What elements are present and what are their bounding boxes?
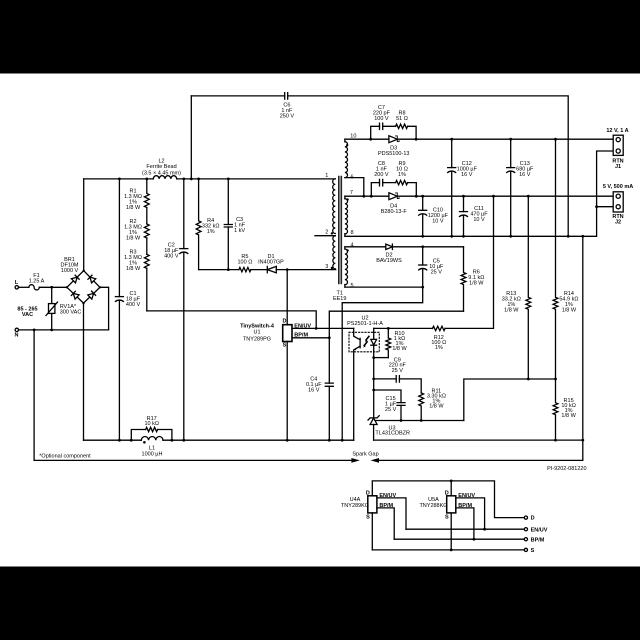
svg-text:EE19: EE19 <box>333 296 346 302</box>
inductor L2 ferrite bead <box>153 176 176 179</box>
bottom black band <box>0 567 640 640</box>
svg-text:10 V: 10 V <box>432 219 444 225</box>
capacitor C5 <box>419 247 427 287</box>
svg-text:5 V, 500 mA: 5 V, 500 mA <box>603 184 633 190</box>
node: phase dot pin 2 <box>331 232 333 234</box>
resistor R9 <box>396 180 408 184</box>
snubber loop C7/R8 around D3 <box>371 126 416 139</box>
transformer core bars <box>339 177 342 284</box>
wire: U5A EN/UV jog <box>456 498 485 529</box>
capacitor C12 <box>448 139 456 236</box>
wire: bridge top vertex to HV bus corner <box>83 179 85 271</box>
node: drain junction on pin3 row <box>286 268 289 271</box>
svg-text:1 kV: 1 kV <box>234 228 245 234</box>
node: 5V row junctions <box>362 195 529 198</box>
wire: U4A EN/UV jog <box>377 498 406 529</box>
node: U5A S junction <box>450 549 453 552</box>
wire: opto LED / R10 / R12 row <box>374 196 494 328</box>
wire: line-sense feed (R3 bottom to EN/UV) <box>147 311 316 329</box>
node: ground row junctions <box>421 235 584 238</box>
node: U5A EN/UV junction <box>483 528 486 531</box>
terminal S <box>524 548 527 551</box>
svg-text:1000 µH: 1000 µH <box>142 451 163 457</box>
node: N / RV1A junction <box>50 329 53 332</box>
resistor R10 <box>386 328 391 357</box>
node: C9 row junction <box>372 378 375 381</box>
wire: EN/UV output line <box>406 528 524 530</box>
resistor R14 column <box>553 139 558 379</box>
IC U4A TNY289KG body <box>368 496 377 513</box>
terminal D <box>524 516 527 519</box>
node: phase dot pin 10 <box>346 144 348 146</box>
wire: pin 6 elbow down to 5V row <box>345 178 364 197</box>
wire: pin 2 stub <box>315 235 335 237</box>
svg-text:1.25 A: 1.25 A <box>29 279 45 285</box>
svg-text:1: 1 <box>325 173 328 179</box>
svg-text:(3.5 × 4.45 mm): (3.5 × 4.45 mm) <box>142 171 181 177</box>
svg-text:D: D <box>531 516 535 522</box>
capacitor C8 <box>380 179 383 185</box>
terminal EN/UV <box>524 528 527 531</box>
snubber loop C8/R9 around D4 <box>371 183 416 197</box>
node: R15 bottom on secondary rail <box>554 439 557 442</box>
node: secondary rail / spark column junction <box>581 439 584 442</box>
node: phase dot pin 7 <box>346 198 348 200</box>
svg-text:250 V: 250 V <box>280 113 295 119</box>
svg-text:5: 5 <box>351 283 354 289</box>
wire: L input to fuse <box>19 286 29 288</box>
resistor R5 <box>239 267 251 271</box>
capacitor C13 <box>507 139 515 236</box>
wire: HV+ bus <box>84 178 336 180</box>
resistor R12 <box>433 326 446 330</box>
winding primary-bias 2-3 <box>333 236 335 269</box>
resistor R8 <box>396 124 408 128</box>
node: 12V row junctions <box>369 138 557 141</box>
wire: pin 5 return jog to primary rail <box>342 287 423 440</box>
terminal N <box>15 328 18 331</box>
wire: secondary ground rail <box>374 236 583 440</box>
diode D3 (schottky) <box>389 136 399 143</box>
svg-text:8: 8 <box>351 230 354 236</box>
wire: N row <box>19 329 109 331</box>
svg-text:S: S <box>283 343 287 349</box>
svg-text:1/8 W: 1/8 W <box>392 346 407 352</box>
node: bus junction snubber-top <box>190 178 193 181</box>
wire: R6 bottom row to BP/M <box>329 311 463 338</box>
svg-text:200 V: 200 V <box>374 172 389 178</box>
svg-text:1%: 1% <box>398 172 406 178</box>
capacitor C3 <box>224 179 232 270</box>
svg-text:PS2501-1-H-A: PS2501-1-H-A <box>347 321 383 327</box>
wire: U1 BP/M pin row <box>292 337 329 339</box>
svg-text:12 V, 1 A: 12 V, 1 A <box>606 128 628 134</box>
diode D1 (cathode left) <box>267 266 276 272</box>
diode D4 (schottky) <box>389 193 399 200</box>
capacitor C7 <box>380 123 383 129</box>
svg-text:S: S <box>531 548 535 554</box>
svg-text:25 V: 25 V <box>431 270 443 276</box>
wire: U4A BP/M jog <box>377 508 394 539</box>
BR1 diode upper-left <box>71 275 79 283</box>
svg-text:400 V: 400 V <box>126 302 141 308</box>
svg-text:TNY288KG: TNY288KG <box>419 503 447 509</box>
node: phase dot pin 3 <box>331 267 333 269</box>
svg-text:1000 V: 1000 V <box>61 268 79 274</box>
node: D2 row / C5 junction <box>421 245 424 248</box>
svg-text:6: 6 <box>351 175 354 181</box>
svg-text:25 V: 25 V <box>385 407 397 413</box>
bridge rectifier BR1 diamond <box>67 271 100 303</box>
terminal L <box>15 286 18 289</box>
wire: R1-R2 link <box>146 208 148 224</box>
svg-text:16 V: 16 V <box>461 172 473 178</box>
node: bridge vertices <box>66 270 101 305</box>
svg-text:400 V: 400 V <box>164 254 179 260</box>
svg-text:BP/M: BP/M <box>294 333 308 339</box>
resistor R2 <box>144 224 149 238</box>
svg-text:3: 3 <box>325 264 328 270</box>
wire: BP/M output line <box>394 538 524 540</box>
svg-text:4: 4 <box>351 243 354 249</box>
node: EN/UV sense junction <box>315 327 318 330</box>
node: RTN junction at J2 <box>595 205 598 208</box>
BR1 diode lower-right <box>88 291 96 299</box>
wire: S output line <box>372 549 524 551</box>
svg-text:TNY289PG: TNY289PG <box>243 336 271 342</box>
wire: R10 bottom to LED cathode <box>374 357 389 359</box>
spark gap left arrow <box>351 458 359 463</box>
opto phototransistor <box>354 328 360 440</box>
node: L1 phase dot <box>143 441 146 444</box>
svg-text:1/8 W: 1/8 W <box>429 403 444 409</box>
winding primary 1-2 <box>333 179 336 234</box>
wire: R5 to D1 <box>251 269 267 271</box>
wire: N to bottom spark line <box>34 330 352 461</box>
diode D2 <box>386 244 393 249</box>
BR1 diode upper-right <box>88 275 96 283</box>
optocoupler U2 dashed box <box>349 332 379 352</box>
wire: U1 source vertical to rail <box>286 342 288 441</box>
wire: bridge bottom vertex to primary rail <box>83 303 85 440</box>
svg-text:1/8 W: 1/8 W <box>126 205 141 211</box>
svg-text:7: 7 <box>350 190 353 196</box>
top black band <box>0 0 640 74</box>
svg-text:EN/UV: EN/UV <box>379 493 396 499</box>
svg-text:BP/M: BP/M <box>531 537 545 543</box>
IC U5A TNY288KG body <box>447 496 456 513</box>
wire: U1 EN/UV pin row <box>292 327 354 329</box>
node: C15 row junction <box>372 389 375 392</box>
svg-text:*Optional component: *Optional component <box>39 453 91 459</box>
capacitor C10 <box>419 196 427 236</box>
wire: U3 cathode row <box>374 420 464 422</box>
node: U5A drain junction <box>450 480 453 483</box>
svg-text:100 V: 100 V <box>374 116 389 122</box>
svg-text:PDS5100-13: PDS5100-13 <box>378 151 410 157</box>
svg-text:EN/UV: EN/UV <box>458 493 475 499</box>
capacitor C15 <box>397 403 405 421</box>
svg-text:100 Ω: 100 Ω <box>237 260 252 266</box>
node: R10 top on EN/UV row <box>387 327 390 330</box>
wire: opto column down to TL431 <box>373 358 375 418</box>
svg-text:EN/UV: EN/UV <box>531 527 548 533</box>
opto light arrows <box>363 336 369 347</box>
opto LED <box>371 328 377 357</box>
wire: C15 row <box>374 390 401 403</box>
BR1 diode lower-left <box>71 291 79 299</box>
svg-text:N: N <box>15 333 19 339</box>
node: C15 bottom junction <box>400 419 403 422</box>
svg-text:BP/M: BP/M <box>458 503 472 509</box>
svg-text:D: D <box>445 491 449 497</box>
wire: sub D rail <box>372 481 524 518</box>
svg-text:J2: J2 <box>615 220 621 226</box>
svg-text:BAV19WS: BAV19WS <box>376 258 402 264</box>
node: bus junction C1 <box>118 178 121 181</box>
svg-text:1%: 1% <box>435 345 443 351</box>
svg-text:BP/M: BP/M <box>379 503 393 509</box>
shunt regulator U3 TL431 <box>368 416 379 440</box>
terminal BP/M <box>524 538 527 541</box>
svg-text:PI-9202-081220: PI-9202-081220 <box>547 466 586 472</box>
capacitor C6 <box>285 93 288 99</box>
node: bus junction R1 chain <box>145 178 148 181</box>
svg-text:2: 2 <box>325 230 328 236</box>
winding secondary 10-6 <box>345 139 348 177</box>
winding bias 4-5 <box>345 247 348 287</box>
fuse F1 <box>29 285 39 290</box>
wire: FB node row to R13/R14 <box>464 379 556 421</box>
wire: pin 4 row <box>345 246 464 248</box>
resistor R13 column <box>526 196 531 379</box>
resistor R1 <box>144 179 149 208</box>
svg-text:D: D <box>283 319 287 325</box>
wire: C6 top row left part <box>191 95 284 97</box>
wire: pin 5 row <box>345 286 423 288</box>
node: BP/M junction <box>328 336 331 339</box>
wire: C9 row <box>374 379 422 393</box>
node: R14/R15 junction <box>554 378 557 381</box>
node: R11 bottom junction <box>420 419 423 422</box>
wire: U5A source to S line <box>450 513 452 550</box>
svg-text:IN4007GP: IN4007GP <box>258 260 284 266</box>
svg-text:25 V: 25 V <box>392 368 404 374</box>
node: phase dot pin 4 <box>346 249 348 251</box>
capacitor C1 <box>115 179 123 440</box>
node: U5A BP/M junction <box>473 538 476 541</box>
node: R13 bottom junction <box>527 378 530 381</box>
svg-text:1/8 W: 1/8 W <box>469 281 484 287</box>
winding secondary 7-8 <box>345 196 348 236</box>
svg-text:1/8 W: 1/8 W <box>126 235 141 241</box>
resistor R17 loop <box>131 427 172 440</box>
svg-text:1/8 W: 1/8 W <box>562 308 577 314</box>
svg-text:VAC: VAC <box>22 312 33 318</box>
node: LED cathode / R10 junction <box>372 356 375 359</box>
resistor R3 <box>144 254 149 268</box>
svg-text:D: D <box>366 491 370 497</box>
node: bus junction C2 <box>182 178 185 181</box>
wire: 5V row (pin7 to J2) <box>345 195 613 197</box>
svg-text:U1: U1 <box>253 330 260 336</box>
svg-text:51 Ω: 51 Ω <box>396 116 408 122</box>
spark gap right arrow <box>371 458 379 463</box>
svg-text:TNY289KG: TNY289KG <box>341 503 369 509</box>
wire: J1 RTN / J2 RTN vertical <box>597 151 614 207</box>
wire: U1 drain vertical <box>286 270 288 325</box>
connector J2 <box>613 192 623 212</box>
wire: U5A drain stub <box>450 481 452 496</box>
wire: C6 top row right part to Y-drop <box>288 96 569 236</box>
node: bus junction R4 <box>197 178 200 181</box>
wire: secondary ground row (pin 8) <box>345 207 597 237</box>
node: clamp row / C3 junction <box>227 268 230 271</box>
wire: clamp bottom row (R4/C3 to R5) <box>199 269 239 271</box>
varistor RV1A <box>46 289 58 328</box>
wire: D1 anode to transformer pin 3 <box>276 269 335 271</box>
resistor R15 <box>553 379 558 440</box>
svg-text:10: 10 <box>350 134 356 140</box>
svg-text:Ferrite Bead: Ferrite Bead <box>146 164 176 170</box>
svg-text:10 kΩ: 10 kΩ <box>144 421 159 427</box>
resistor R4 <box>196 179 201 270</box>
wire: bridge right vertex to N row <box>100 287 109 330</box>
node: L wire / RV1A junction <box>50 286 53 289</box>
wire: U5A BP/M jog <box>456 508 474 539</box>
node: primary rail junctions <box>118 439 344 442</box>
svg-text:1/8 W: 1/8 W <box>504 308 519 314</box>
svg-text:EN/UV: EN/UV <box>294 323 311 329</box>
wire: U4A source to S line <box>371 513 373 550</box>
capacitor C2 <box>180 179 188 440</box>
wire: J2 RTN stub <box>597 206 614 208</box>
node: bus junction C3 <box>227 178 230 181</box>
svg-text:1/8 W: 1/8 W <box>126 266 141 272</box>
svg-text:S: S <box>366 514 370 520</box>
capacitor C9 <box>396 376 399 382</box>
wire: fuse to bridge left vertex <box>39 286 67 288</box>
resistor R11 <box>419 393 424 421</box>
svg-text:B280-13-F: B280-13-F <box>381 209 408 215</box>
svg-text:1%: 1% <box>207 229 215 235</box>
wire: R2-R3 link <box>146 238 148 254</box>
wire: snubber top left vertical <box>190 96 192 179</box>
capacitor C4 <box>325 338 333 440</box>
node: pin5 / C5 bottom junction <box>421 286 424 289</box>
svg-text:TL431CDBZR: TL431CDBZR <box>375 430 410 436</box>
svg-text:Spark Gap: Spark Gap <box>352 452 378 458</box>
svg-text:S: S <box>445 514 449 520</box>
svg-text:J1: J1 <box>615 164 621 170</box>
svg-text:16 V: 16 V <box>519 172 531 178</box>
resistor R6 column <box>461 247 466 311</box>
capacitor C11 <box>460 196 468 236</box>
wire: primary ground rail <box>84 439 354 441</box>
svg-text:10 V: 10 V <box>473 217 485 223</box>
IC U1 TNY289PG body <box>283 325 292 342</box>
node: N / bottom-line junction <box>33 329 36 332</box>
svg-text:300 VAC: 300 VAC <box>60 310 82 316</box>
inductor L1 <box>141 437 163 441</box>
wire: 12V row (pin10 to J1) <box>345 138 613 140</box>
wire: R3 bottom to EN/UV sense line <box>146 268 148 311</box>
wire: spark line right to secondary rail <box>379 440 583 460</box>
connector J1 <box>613 135 623 155</box>
svg-text:1/8 W: 1/8 W <box>561 413 576 419</box>
svg-text:16 V: 16 V <box>308 387 320 393</box>
